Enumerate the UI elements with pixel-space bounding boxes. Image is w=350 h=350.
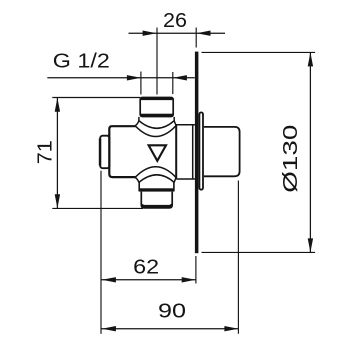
left nub stop (100, 136, 109, 169)
shoulder arc inner bottom (139, 175, 174, 183)
node ext line G12 left (140, 72, 142, 95)
node arrow 90 left (102, 326, 116, 331)
node ref line 71 bottom (52, 207, 143, 209)
shoulder arc outer bottom (135, 167, 176, 178)
wire dim line 90 (101, 328, 238, 330)
wire dim line G 1/2 (47, 77, 195, 79)
node arrow 90 right (224, 326, 238, 331)
node ref line D130 top (202, 51, 316, 53)
node arrow G12 left (127, 75, 141, 80)
node ext line 62-90 left (100, 171, 102, 334)
neck fillet right top (174, 121, 176, 126)
flow direction triangle (149, 145, 166, 161)
wire dim line 62 (101, 279, 196, 281)
node arrow 26 right (197, 31, 211, 36)
node arrow D130 up (308, 52, 313, 66)
washer flange stack behind plate (199, 112, 203, 189)
svg-text:90: 90 (158, 300, 186, 323)
concealed body behind wall (204, 127, 240, 176)
svg-text:G 1/2: G 1/2 (53, 49, 110, 72)
node ext line 90 right (237, 181, 239, 334)
shoulder arc outer top (135, 126, 176, 137)
node ext line 26 right (195, 28, 197, 48)
svg-text:26: 26 (163, 9, 187, 32)
valve neck collar top (135, 117, 176, 137)
node arrow G12 right (173, 75, 187, 80)
node ref line D130 bottom (202, 251, 316, 253)
node ref line 71 top (52, 97, 140, 99)
neck fillet right bottom (174, 178, 176, 183)
bottom thread port (141, 192, 172, 208)
node arrow 71 down (55, 194, 60, 208)
bottom collar hex (139, 182, 174, 191)
neck fillet left top (135, 121, 139, 126)
wire dim line 71 (56, 98, 58, 208)
node arrow 62 right (182, 277, 196, 282)
node arrow D130 down (308, 238, 313, 252)
neck fillet left bottom (135, 178, 139, 183)
node arrow 71 up (55, 98, 60, 112)
valve body main (109, 125, 176, 178)
wire dim line 26 (129, 32, 226, 34)
valve neck collar bottom (135, 167, 176, 183)
rosette wall plate D130 edge-on (195, 52, 199, 254)
node ext line 62 right (195, 256, 197, 284)
node ext line 26 left centerline (156, 28, 158, 95)
node ext line G12 right (172, 72, 174, 94)
valve top thread port G1/2 (140, 97, 173, 117)
svg-text:62: 62 (133, 256, 159, 279)
shoulder arc inner top (139, 121, 174, 129)
svg-text:Ø130: Ø130 (279, 125, 302, 193)
node arrow 26 left (143, 31, 157, 36)
right cylinder to wall (176, 125, 195, 179)
svg-text:71: 71 (34, 140, 57, 164)
node arrow 62 left (102, 277, 116, 282)
wire dim line D130 (309, 52, 311, 252)
